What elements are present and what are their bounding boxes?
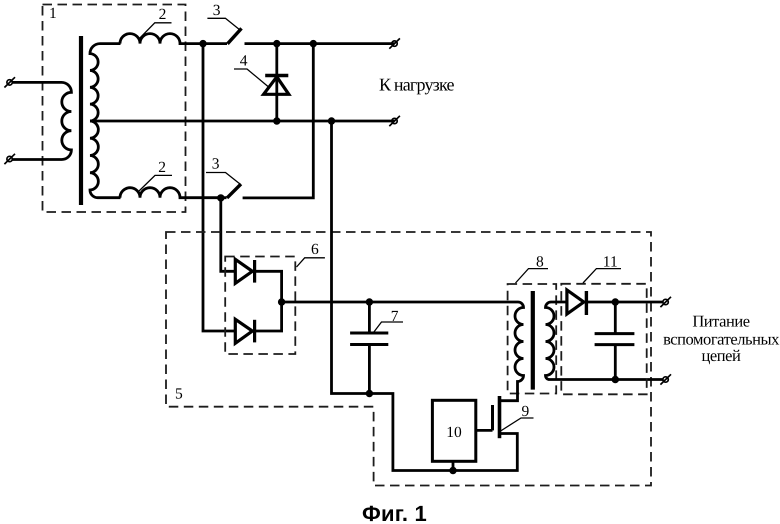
svg-text:К нагрузке: К нагрузке (379, 74, 454, 94)
transformer 8 secondary winding with output leads (546, 302, 663, 380)
node rectifier output (278, 298, 285, 305)
node capacitor 11 top (612, 298, 619, 305)
diode 11 output wire (586, 301, 662, 304)
node bottom switch / block5 tap (217, 194, 224, 201)
node control unit ground (449, 467, 456, 474)
dashed block 1 (input transformer unit) (43, 5, 186, 213)
svg-text:2: 2 (159, 6, 167, 23)
rectifier diode upper output wire (255, 271, 282, 302)
transformer T1 secondary winding (lower half) (90, 121, 121, 198)
svg-text:3: 3 (212, 156, 220, 173)
svg-text:6: 6 (311, 241, 319, 258)
capacitor 7 bottom lead (368, 345, 371, 394)
node top rail / block5 tap (199, 40, 206, 47)
wire from bottom switch dot down into block 5 to upper rectifier diode (221, 198, 235, 271)
transformer 8 primary winding and drain wire (500, 302, 524, 401)
capacitor 11 plates (595, 334, 635, 345)
wire top rail to load terminal (245, 42, 395, 45)
control unit 10 bottom connector (452, 461, 455, 470)
dashed block 11 (aux rectifier) (561, 284, 646, 395)
terminal input bottom (4, 154, 15, 164)
terminal load bottom (389, 116, 400, 126)
svg-text:4: 4 (240, 53, 248, 70)
diode 4 lead (275, 44, 278, 121)
choke 2 (bottom) (120, 188, 227, 198)
svg-text:Питание: Питание (692, 312, 749, 331)
diode 11 cathode bar (585, 291, 588, 315)
dashed block 6 (rectifier) (225, 257, 295, 355)
label 6 leader (297, 258, 325, 267)
label 2 bottom leader (139, 175, 173, 191)
svg-text:10: 10 (446, 424, 462, 441)
dashed block 8 (transformer) (508, 284, 557, 394)
wire middle rail (centre tap to load terminal) (90, 120, 395, 123)
choke 2 (top) (120, 34, 227, 44)
diode 11 triangle (567, 290, 584, 314)
node middle rail / return wire (328, 117, 335, 124)
text Питание вспомогательных цепей (663, 312, 780, 366)
node capacitor 7 top (366, 298, 373, 305)
label 7 leader (374, 322, 404, 333)
capacitor 11 bottom lead (614, 345, 617, 380)
terminal aux top (660, 297, 671, 307)
svg-text:3: 3 (213, 2, 221, 19)
svg-text:7: 7 (391, 308, 399, 325)
capacitor 7 top lead (368, 302, 371, 333)
label 9 leader (500, 418, 534, 432)
label 8 leader (516, 269, 549, 283)
terminal load top (389, 38, 400, 48)
svg-text:цепей: цепей (702, 346, 742, 365)
svg-text:Фиг. 1: Фиг. 1 (362, 501, 427, 524)
svg-text:5: 5 (175, 386, 183, 403)
transformer T1 primary winding (12, 82, 71, 159)
svg-text:9: 9 (522, 403, 530, 420)
capacitor 7 plates (350, 333, 388, 345)
switch 3 top blade (228, 28, 242, 43)
svg-text:11: 11 (603, 253, 618, 270)
node top rail / diode 4 (273, 40, 280, 47)
transformer T1 core (79, 36, 83, 205)
diode 4 cathode bar (265, 74, 288, 77)
rectifier diode lower bar (253, 320, 256, 343)
rectifier diode upper bar (253, 260, 256, 283)
switch 3 bottom blade (227, 184, 241, 198)
diode 4 triangle (264, 77, 289, 95)
rectifier diode lower output wire (255, 302, 282, 331)
rectifier diode upper triangle (235, 259, 252, 283)
svg-text:8: 8 (536, 253, 544, 270)
terminal input top (4, 77, 15, 87)
node middle rail / diode 4 (273, 117, 280, 124)
label 4 leader (234, 69, 268, 87)
dashed block 5 (converter unit, L-shaped) (166, 232, 651, 486)
label 11 leader (583, 269, 621, 283)
svg-text:2: 2 (158, 159, 166, 176)
transformer 8 core (531, 291, 535, 390)
wire DC bus from rectifier node to transformer 8 primary (282, 301, 515, 304)
label 3 top leader (207, 18, 240, 30)
wire return: centre-tap rail down, along bottom, to MOSFET source (332, 121, 518, 471)
node capacitor 11 bottom (612, 376, 619, 383)
control unit 10 box (432, 400, 475, 461)
label 2 top leader (140, 23, 172, 38)
transformer T1 secondary winding (upper half) (90, 44, 121, 121)
MOSFET 9 channel bar (498, 396, 502, 438)
label 3 bottom leader (206, 173, 240, 185)
node capacitor 7 bottom (366, 390, 373, 397)
terminal aux bottom (660, 374, 671, 384)
MOSFET 9 gate bar (491, 405, 494, 430)
node top rail / switch return (310, 40, 317, 47)
wire vertical from top rail to bottom switch output (243, 44, 314, 198)
capacitor 11 top lead (614, 302, 617, 334)
wire from top rail dot down into block 5 to lower rectifier diode (203, 44, 235, 331)
MOSFET 9 gate wire (476, 429, 493, 432)
svg-text:1: 1 (49, 5, 57, 22)
rectifier diode lower triangle (235, 319, 252, 343)
